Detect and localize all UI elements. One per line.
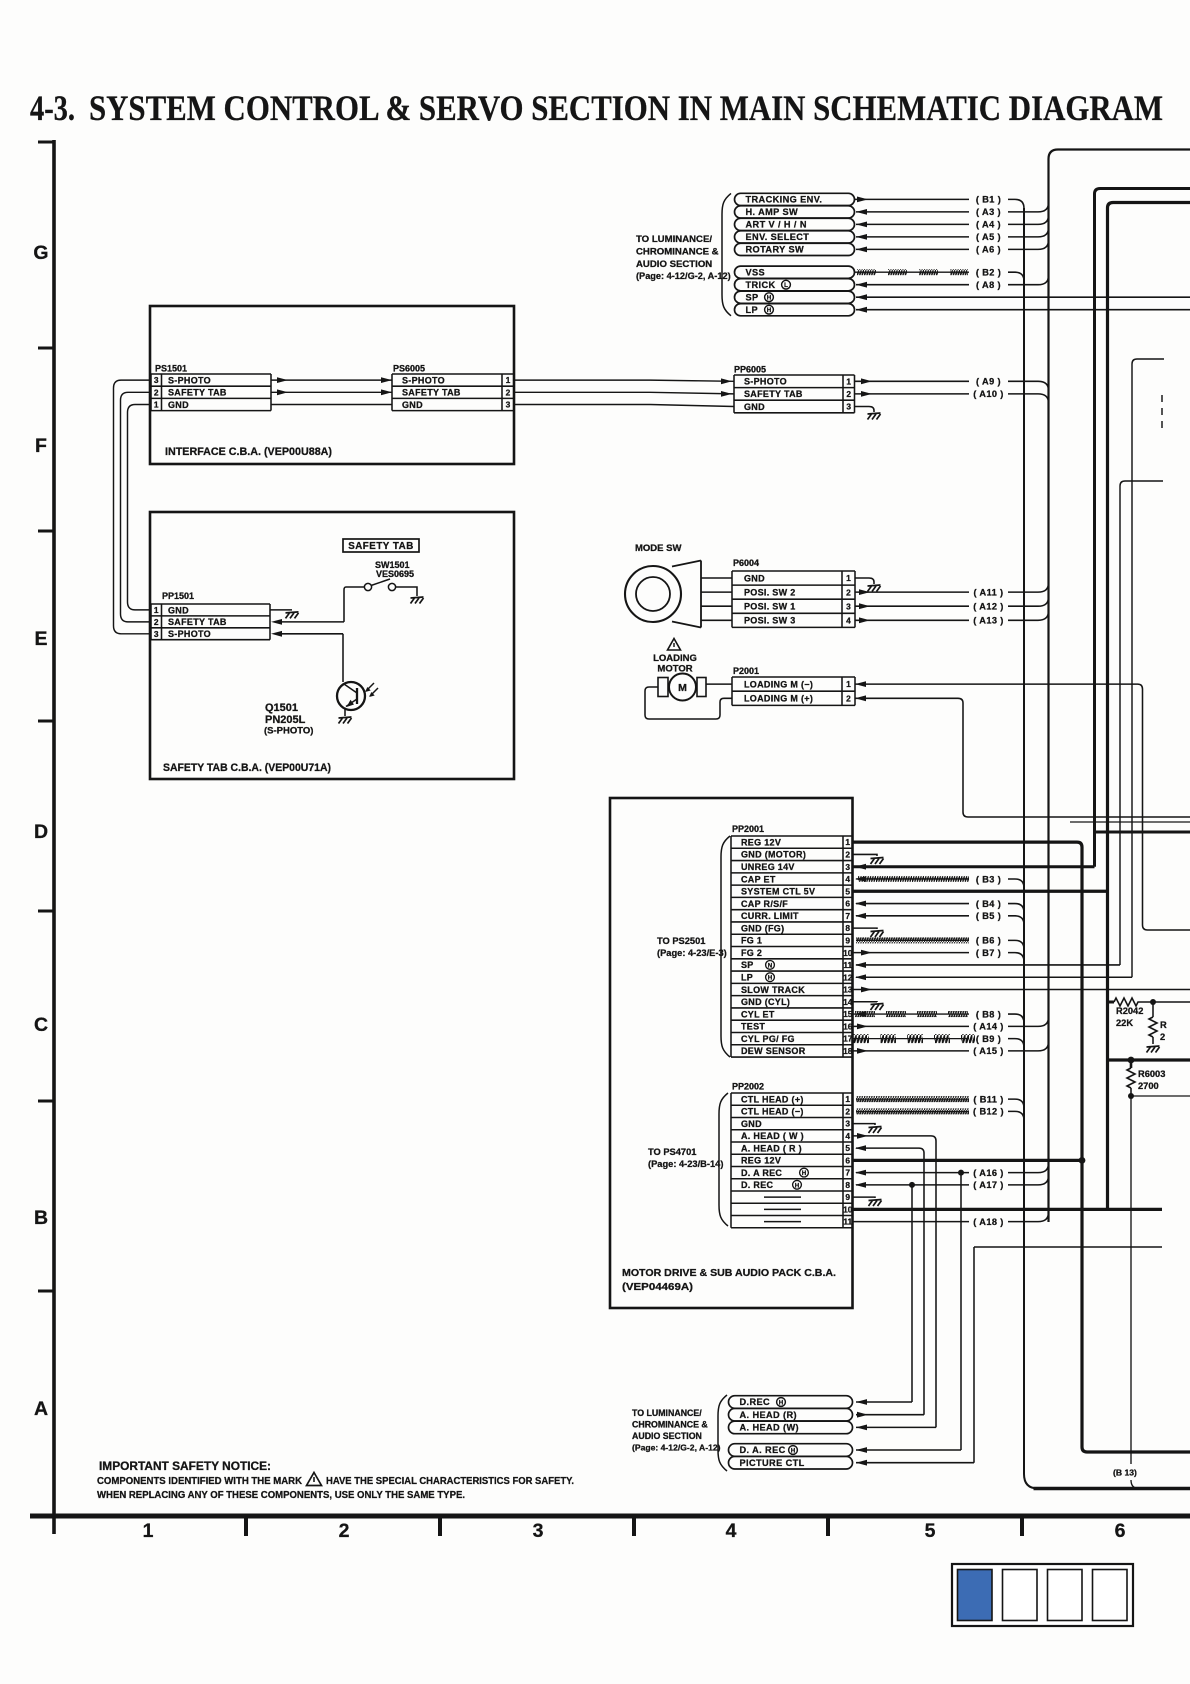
wire pin11 to A18 [853,1221,970,1223]
svg-text:2: 2 [1160,1032,1165,1042]
svg-text:SAFETY TAB: SAFETY TAB [348,541,414,552]
interface C.B.A. box outline [150,306,514,464]
svg-text:H: H [768,975,773,982]
wire A HEAD W down to pill [853,1135,932,1137]
svg-text:PICTURE CTL: PICTURE CTL [740,1458,805,1468]
wire mode switch to P6004 [701,619,732,621]
svg-text:2: 2 [846,389,851,399]
svg-text:( B11 ): ( B11 ) [973,1094,1003,1104]
svg-text:1: 1 [846,679,851,689]
wire SW1501 right to ground [396,587,417,596]
safety mark triangle at loading motor [668,639,681,651]
svg-text:D.REC: D.REC [740,1397,771,1407]
svg-text:9: 9 [845,935,850,945]
wire PP2002 GND stub [853,1124,876,1125]
svg-text:H: H [802,1170,807,1177]
wire TRACKING ENV to B1 [855,198,970,200]
svg-text:GND: GND [744,402,765,412]
pill SP H [735,291,855,303]
left ruler vertical line [52,140,56,1534]
svg-text:INTERFACE C.B.A. (VEP00U88A): INTERFACE C.B.A. (VEP00U88A) [165,446,332,458]
pill TRACKING ENV [735,193,855,205]
wire A10 to A bus [1008,394,1049,403]
left ruler tick [38,347,54,350]
pill LP H [735,304,855,316]
svg-text:COMPONENTS IDENTIFIED WITH THE: COMPONENTS IDENTIFIED WITH THE MARK [97,1476,303,1487]
wire SLOW TRACK long [853,989,1190,991]
svg-text:4: 4 [846,615,851,625]
svg-text:9: 9 [845,1192,850,1202]
pill ART V/H/N [735,218,855,230]
pill D.REC H [729,1396,853,1409]
circled H on D.A REC row [800,1168,809,1177]
footer nav outer box [952,1564,1133,1626]
wire GND PS1501 to PS6005 [271,404,392,406]
svg-text:TEST: TEST [741,1022,765,1032]
wire LP H up right side [1132,359,1164,977]
svg-text:A: A [34,1398,48,1420]
svg-text:3: 3 [845,862,850,872]
wire B13 down [1130,1096,1132,1464]
block edge second [1108,203,1190,1210]
svg-text:D. REC: D. REC [741,1180,774,1190]
wire Q1501 emitter to ground [344,708,346,717]
wire CYL PG/FG to B9 hatched [853,1038,970,1040]
svg-text:H: H [791,1448,796,1455]
dashed block edge x1162 [1161,395,1163,430]
pill VSS [735,266,855,278]
svg-text:13: 13 [843,985,853,995]
svg-text:S-PHOTO: S-PHOTO [168,629,211,639]
safety tab C.B.A. box outline [150,512,514,779]
wire VSS to B2 hatched [855,271,970,273]
svg-text:LOADING M (−): LOADING M (−) [744,679,813,689]
wire SYSTEM CTL 5V thick [853,890,1108,893]
svg-text:12: 12 [843,972,853,982]
pill D A REC H [729,1444,853,1457]
wire S-PHOTO into PP1501 pin3 [278,633,343,635]
wire B5 to B bus [1008,916,1024,925]
svg-text:( B2 ): ( B2 ) [976,268,1001,278]
svg-text:( A18 ): ( A18 ) [973,1217,1004,1227]
wire GND PS1501 to PP1501 [128,405,152,610]
svg-text:SAFETY TAB: SAFETY TAB [168,617,227,627]
svg-text:CYL ET: CYL ET [741,1009,775,1019]
svg-text:4-3.: 4-3. [30,88,75,128]
wire into D.REC pill [856,1401,912,1403]
ground below R2 [1147,1046,1160,1053]
connector table PP2001 [731,835,853,837]
wire D REC branch down [911,1185,913,1402]
svg-text:3: 3 [506,400,511,410]
svg-text:22K: 22K [1116,1018,1133,1028]
wire B7 to B bus [1008,953,1024,962]
svg-text:TO PS2501: TO PS2501 [657,936,705,946]
wire REG 12V thick to right [853,842,1190,1452]
svg-text:LOADING: LOADING [653,653,697,664]
wire B6 to B bus [1008,940,1024,949]
wire CYL ET to B8 hatched [853,1013,970,1015]
svg-text:A. HEAD (R): A. HEAD (R) [740,1410,797,1420]
svg-text:4: 4 [845,1131,850,1141]
wire A16 to A bus [1008,1164,1049,1173]
pill ENV SELECT [735,231,855,243]
svg-text:TO LUMINANCE/: TO LUMINANCE/ [632,1408,702,1418]
svg-text:( B8 ): ( B8 ) [976,1009,1001,1019]
wire PP1501 GND to ground [270,609,292,611]
wire TRICK from A8 [856,284,969,286]
left ruler top tick [38,141,54,144]
svg-text:2: 2 [845,850,850,860]
pill A HEAD R [729,1408,853,1421]
wire motor loop to P2001 pin2 [645,687,732,719]
footer nav square 4 [1093,1570,1128,1621]
resistor R6003 2700 [1130,1060,1133,1068]
svg-text:ART V / H / N: ART V / H / N [746,220,807,230]
svg-text:3: 3 [154,375,159,385]
wire PP6005 pin1 to A9 [855,380,970,382]
svg-text:6: 6 [845,899,850,909]
wire B8 to B bus [1008,1014,1024,1023]
svg-text:H: H [779,1400,784,1407]
svg-text:TRACKING ENV.: TRACKING ENV. [746,195,823,205]
wire CTL HEAD - to B12 hatched [856,1110,969,1112]
svg-text:5: 5 [925,1520,936,1542]
wire ART V/H/N from A4 [856,223,969,225]
svg-text:LP: LP [746,305,759,315]
svg-text:H. AMP SW: H. AMP SW [746,207,799,217]
svg-text:GND (CYL): GND (CYL) [741,997,790,1007]
svg-text:1: 1 [143,1520,154,1542]
switch SW1501 [364,583,371,590]
wire LP H long [856,976,1132,978]
wire A6 to A bus [1008,240,1049,249]
wire P6004 to A12 [855,605,969,607]
svg-text:Q1501: Q1501 [265,702,298,714]
svg-text:PP2002: PP2002 [732,1082,764,1092]
svg-text:( B4 ): ( B4 ) [976,899,1001,909]
wire A18 to A bus [1008,1213,1049,1222]
svg-text:FG 2: FG 2 [741,948,762,958]
wire FG 2 to B7 [853,952,970,954]
wire into A HEAD W pill [856,1426,936,1428]
wire A4 to A bus [1008,215,1049,224]
svg-text:S-PHOTO: S-PHOTO [402,375,445,385]
svg-text:MOTOR: MOTOR [657,664,692,675]
wire D A REC to A16 [856,1172,969,1174]
wire GND CYL stub [853,1001,878,1003]
ground at PP6005 pin3 [868,413,881,420]
svg-text:F: F [35,435,47,457]
svg-text:POSI. SW 3: POSI. SW 3 [744,616,796,626]
wire A HEAD R down to pill [856,1147,919,1149]
loading motor symbol [658,678,668,697]
svg-text:D: D [34,821,48,843]
svg-text:A. HEAD (W): A. HEAD (W) [740,1423,800,1433]
svg-text:ENV. SELECT: ENV. SELECT [746,232,810,242]
svg-text:WHEN REPLACING ANY OF THESE CO: WHEN REPLACING ANY OF THESE COMPONENTS, … [97,1490,465,1501]
svg-text:C: C [34,1014,48,1036]
circled H on LP row [766,973,775,982]
svg-text:R: R [1160,1020,1167,1030]
svg-text:PP2001: PP2001 [732,824,764,834]
wire to PICTURE CTL [974,1246,1162,1248]
pill PICTURE CTL [729,1456,853,1469]
bottom ruler tick [438,1516,442,1536]
svg-text:CAP ET: CAP ET [741,874,776,884]
wire P6004 to A13 [855,619,969,621]
svg-text:SYSTEM CONTROL & SERVO SECTION: SYSTEM CONTROL & SERVO SECTION IN MAIN S… [89,88,1163,128]
svg-text:( B3 ): ( B3 ) [976,874,1001,884]
connector table PP6005 [734,374,855,376]
thick line y1060 [1108,1058,1190,1061]
svg-text:1: 1 [154,605,159,615]
svg-text:(Page: 4-23/B-14): (Page: 4-23/B-14) [648,1159,723,1169]
svg-text:8: 8 [845,1180,850,1190]
photo arrows at Q1501 [366,683,378,696]
svg-text:UNREG 14V: UNREG 14V [741,862,795,872]
svg-text:11: 11 [843,960,852,970]
wire PP6005 pin2 to A10 [855,393,970,395]
svg-text:1: 1 [845,837,850,847]
pill TRICK L [735,279,855,291]
wire out of A HEAD R pill [856,1414,924,1416]
svg-text:HAVE THE SPECIAL CHARACTERISTI: HAVE THE SPECIAL CHARACTERISTICS FOR SAF… [326,1476,574,1487]
left ruler tick [38,1100,54,1103]
svg-text:14: 14 [843,997,853,1007]
svg-text:11: 11 [843,1217,852,1227]
wire A12 to A bus [1008,597,1049,606]
svg-text:LOADING M (+): LOADING M (+) [744,694,813,704]
wire motor to P2001 pin1 [706,683,732,685]
svg-text:10: 10 [843,948,853,958]
svg-text:2: 2 [154,617,159,627]
svg-text:3: 3 [846,402,851,412]
svg-text:P6004: P6004 [733,558,759,568]
wire mode switch to P6004 [701,605,732,607]
svg-text:GND: GND [402,400,423,410]
connector table P6004 [732,570,855,572]
svg-text:1: 1 [846,376,851,386]
wire into PICTURE CTL pill [856,1462,974,1464]
connector table P2001 [732,676,855,678]
wire A11 to A bus [1008,583,1049,592]
left ruler tick [38,1290,54,1293]
svg-text:(VEP04469A): (VEP04469A) [622,1281,693,1293]
mode switch symbol [672,561,701,628]
wire SP N up right side [1120,481,1163,965]
wire H AMP SW from A3 [856,211,969,213]
ground at SW1501 [411,597,424,604]
svg-text:( A4 ): ( A4 ) [976,220,1001,230]
wire P6004 pin1 to ground [855,578,874,584]
svg-text:REG 12V: REG 12V [741,837,781,847]
wire TEST to A14 [853,1025,970,1027]
svg-text:H: H [767,295,772,302]
wire LP long line to right edge [856,309,1190,311]
svg-text:(S-PHOTO): (S-PHOTO) [264,726,313,737]
svg-text:A. HEAD ( W ): A. HEAD ( W ) [741,1131,804,1141]
svg-text:A. HEAD ( R ): A. HEAD ( R ) [741,1143,802,1153]
motor drive and sub audio pack C.B.A. box outline [610,798,853,1308]
wire PP2002 REG 12V thick [853,1159,1083,1162]
wire B2 to B bus [1008,272,1024,281]
svg-text:TRICK: TRICK [746,280,776,290]
wire from R6003 to right [1131,1095,1190,1097]
wire safety tab into PP1501 pin2 [278,621,344,623]
svg-text:2: 2 [845,1106,850,1116]
wire pin9 stub to ground [853,1196,876,1199]
circled N on SP row [766,961,775,970]
wire CTL HEAD + to B11 hatched [856,1098,969,1100]
wire SAFETY TAB PS6005 to PP6005 [514,391,650,393]
ground at PP1501 pin1 [286,612,299,619]
brace bottom pill group [718,1395,727,1471]
svg-text:MOTOR DRIVE & SUB AUDIO PACK C: MOTOR DRIVE & SUB AUDIO PACK C.B.A. [622,1267,836,1279]
svg-text:10: 10 [843,1204,853,1214]
footer nav square 2 [1003,1570,1038,1621]
wire loading M(+) down and right [958,698,1190,817]
svg-text:E: E [34,628,47,650]
svg-text:( A15 ): ( A15 ) [973,1046,1004,1056]
svg-text:PN205L: PN205L [265,714,306,726]
svg-text:CYL PG/ FG: CYL PG/ FG [741,1034,795,1044]
svg-text:( A6 ): ( A6 ) [976,245,1001,255]
left ruler tick [38,530,54,533]
svg-text:CAP R/S/F: CAP R/S/F [741,899,788,909]
pill H AMP SW [735,206,855,218]
wire A9 to A bus [1008,381,1049,390]
dash mark blank row [764,1196,801,1198]
svg-text:1: 1 [846,573,851,583]
svg-text:SAFETY TAB: SAFETY TAB [402,388,461,398]
svg-text:LP: LP [741,973,753,983]
wire FG 1 to B6 hatched [856,939,969,941]
ground at PP2001 pin14 [871,1004,884,1011]
svg-text:CHROMINANCE &: CHROMINANCE & [632,1420,708,1430]
svg-text:CTL HEAD (+): CTL HEAD (+) [741,1094,804,1104]
svg-text:15: 15 [843,1009,853,1019]
wire A14 to A bus [1008,1017,1049,1026]
svg-text:GND: GND [168,605,189,615]
thick stub y832 [1095,831,1190,834]
bottom ruler line [30,1514,1190,1519]
svg-text:IMPORTANT SAFETY NOTICE:: IMPORTANT SAFETY NOTICE: [99,1461,271,1473]
svg-text:M: M [678,682,687,694]
wire LOADING M(-) from right [855,683,1138,685]
wire phototransistor collector [342,634,344,682]
svg-text:VSS: VSS [746,267,766,277]
svg-text:DEW SENSOR: DEW SENSOR [741,1046,806,1056]
svg-text:REG 12V: REG 12V [741,1156,781,1166]
wire pin10 thick to right [853,1208,1163,1211]
wire D REC to A17 [856,1184,969,1186]
svg-text:POSI. SW 1: POSI. SW 1 [744,602,796,612]
bus A trunk [1049,150,1190,1223]
wire A15 to A bus [1008,1042,1049,1051]
circled H on D.REC row [793,1180,802,1189]
svg-text:( A5 ): ( A5 ) [976,232,1001,242]
wire ENV SELECT from A5 [856,236,969,238]
wire SP N long [856,964,1120,966]
svg-text:2700: 2700 [1138,1081,1159,1091]
brace top pill group [722,193,731,315]
svg-text:TO PS4701: TO PS4701 [648,1147,696,1157]
svg-text:2: 2 [154,387,159,397]
svg-text:( B12 ): ( B12 ) [973,1107,1004,1117]
svg-text:PS1501: PS1501 [155,364,187,374]
wire SW1501 left to PP1501 pin2 [344,587,364,622]
ground at PP2002 pin9 [869,1200,882,1207]
svg-text:SYSTEM CTL 5V: SYSTEM CTL 5V [741,887,815,897]
wire A5 to A bus [1008,228,1049,237]
wire PP6005 pin3 to ground [855,407,875,413]
svg-text:( B6 ): ( B6 ) [976,936,1001,946]
svg-text:PS6005: PS6005 [393,364,425,374]
wire S-PHOTO PS1501 to PS6005 [271,379,392,381]
svg-text:D. A REC: D. A REC [741,1168,782,1178]
wire A13 to A bus [1008,611,1049,620]
svg-text:5: 5 [845,886,850,896]
ground at PP2002 pin3 [869,1127,882,1134]
wire B3 to B bus [1008,879,1024,888]
svg-text:SLOW TRACK: SLOW TRACK [741,985,805,995]
wire B9 to B bus [1008,1039,1024,1048]
svg-text:B: B [34,1207,48,1229]
wire GND MOTOR stub [853,854,878,856]
wire SP long line to right edge [856,296,1190,298]
svg-text:AUDIO SECTION: AUDIO SECTION [632,1431,702,1441]
svg-text:CTL HEAD (−): CTL HEAD (−) [741,1107,804,1117]
svg-text:PP6005: PP6005 [734,365,766,375]
svg-text:( A10 ): ( A10 ) [973,389,1004,399]
svg-text:7: 7 [845,1168,850,1178]
svg-text:1: 1 [154,400,159,410]
dash mark blank row [764,1208,801,1210]
svg-text:( B7 ): ( B7 ) [976,948,1001,958]
svg-text:R6003: R6003 [1138,1069,1165,1079]
bottom ruler tick [826,1516,830,1536]
svg-text:5: 5 [845,1143,850,1153]
svg-text:GND (FG): GND (FG) [741,923,784,933]
wire DEW SENSOR to A15 [853,1050,970,1052]
SAFETY TAB label box [343,539,419,552]
svg-text:N: N [768,962,773,969]
wire LOADING M(+) from right [855,697,958,699]
svg-text:( B5 ): ( B5 ) [976,911,1001,921]
phototransistor Q1501 [337,682,365,710]
svg-text:( B9 ): ( B9 ) [976,1034,1001,1044]
svg-text:(Page: 4-12/G-2, A-12): (Page: 4-12/G-2, A-12) [632,1443,721,1453]
svg-text:TO LUMINANCE/: TO LUMINANCE/ [636,234,712,245]
svg-text:( A17 ): ( A17 ) [973,1180,1004,1190]
left ruler tick [38,910,54,913]
wire A8 to A bus [1008,276,1049,285]
svg-text:( A14 ): ( A14 ) [973,1022,1004,1032]
bottom ruler tick [632,1516,636,1536]
svg-text:(B 13): (B 13) [1113,1468,1137,1478]
wire D A REC branch down [960,1173,962,1450]
bottom ruler tick [1020,1516,1024,1536]
svg-text:AUDIO SECTION: AUDIO SECTION [636,259,712,270]
svg-text:(Page: 4-12/G-2, A-12): (Page: 4-12/G-2, A-12) [636,271,731,281]
resistor R2042 22K [1108,1001,1115,1004]
svg-text:7: 7 [845,911,850,921]
svg-text:D. A. REC: D. A. REC [740,1445,786,1455]
svg-text:6: 6 [1115,1520,1126,1542]
svg-text:( A12 ): ( A12 ) [973,602,1004,612]
svg-text:3: 3 [845,1119,850,1129]
